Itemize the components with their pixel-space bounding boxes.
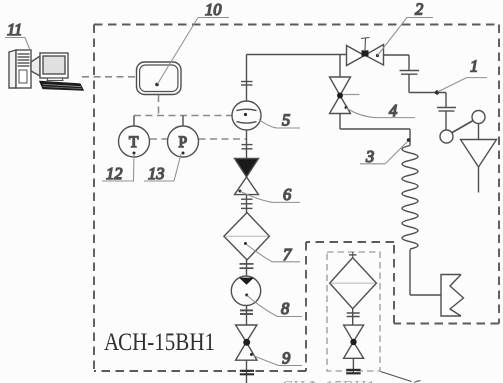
comm dashed wire computer to controller xyxy=(82,76,136,78)
computer 11 xyxy=(9,50,83,90)
wire branch to valve 4 xyxy=(339,55,341,78)
wire below sub valve with flange xyxy=(346,358,360,374)
svg-text:13: 13 xyxy=(148,164,165,183)
label 12 xyxy=(102,154,134,181)
svg-text:СИФ-15ВН1: СИФ-15ВН1 xyxy=(282,377,376,383)
svg-text:5: 5 xyxy=(282,111,290,130)
valve 2 xyxy=(347,38,384,66)
svg-text:1: 1 xyxy=(470,57,478,76)
svg-text:Т: Т xyxy=(129,134,139,151)
filter 7 diamond xyxy=(224,213,270,260)
valve 4 xyxy=(330,77,360,114)
check valve 6 xyxy=(235,159,259,195)
funnel tank neck xyxy=(461,140,497,193)
flange below sub filter xyxy=(347,309,360,325)
hose coil 3 xyxy=(402,146,418,250)
label 7 xyxy=(246,244,300,262)
label 8 xyxy=(247,296,302,317)
label 10 xyxy=(158,18,230,85)
svg-text:Р: Р xyxy=(179,134,188,151)
label 2 xyxy=(378,18,434,56)
pump 8 xyxy=(231,276,260,305)
label 3 xyxy=(360,142,408,164)
leader to sub unit label xyxy=(381,372,412,382)
svg-text:9: 9 xyxy=(282,349,290,368)
label 11 xyxy=(5,38,30,51)
svg-text:12: 12 xyxy=(106,164,123,183)
label 9 xyxy=(252,355,302,366)
svg-text:3: 3 xyxy=(365,147,374,166)
wire below valve 9 with flange xyxy=(240,360,254,383)
svg-text:7: 7 xyxy=(283,245,292,264)
control dashed wires xyxy=(134,95,246,139)
wire valve2 union branch down xyxy=(409,55,446,130)
valve 9 xyxy=(236,325,257,360)
label 6 xyxy=(241,192,301,203)
sensor T 12 xyxy=(119,116,150,158)
wire hose to tank xyxy=(410,250,441,296)
flange below pump 8 xyxy=(240,306,253,326)
svg-text:4: 4 xyxy=(389,101,397,120)
label 13 xyxy=(144,154,181,181)
sub filter diamond xyxy=(330,252,377,309)
sub valve xyxy=(344,325,364,358)
svg-text:б: б xyxy=(412,377,421,383)
flange above check valve 6 xyxy=(242,130,253,158)
svg-text:11: 11 xyxy=(7,20,22,39)
label 4 xyxy=(346,108,415,118)
flange union top riser xyxy=(241,82,253,86)
flange below filter 7 xyxy=(240,260,254,277)
label 1 xyxy=(438,78,488,92)
nozzle swivel circles xyxy=(440,111,485,144)
sub-unit inner dashed box xyxy=(327,252,380,371)
controller 10 rounded box xyxy=(137,62,182,95)
union coupling upper xyxy=(400,71,420,75)
svg-text:6: 6 xyxy=(283,185,292,204)
tank break symbol xyxy=(441,275,464,317)
union coupling lower xyxy=(437,108,456,112)
flow meter 5 xyxy=(232,101,261,130)
svg-text:2: 2 xyxy=(415,0,423,19)
svg-text:АСН-15ВН1: АСН-15ВН1 xyxy=(104,327,215,356)
wire riser to top xyxy=(247,55,347,102)
enclosure boundary ACH-15BH1 dashed xyxy=(94,25,499,372)
node junction 1 xyxy=(435,90,439,94)
sensor P 13 xyxy=(168,116,199,158)
svg-text:10: 10 xyxy=(205,0,222,19)
wire valve2 to union xyxy=(384,54,410,56)
flange below valve 6 xyxy=(241,195,253,213)
label 5 xyxy=(259,120,300,129)
svg-text:8: 8 xyxy=(281,299,290,318)
wire valve4 down to hose xyxy=(340,114,410,146)
